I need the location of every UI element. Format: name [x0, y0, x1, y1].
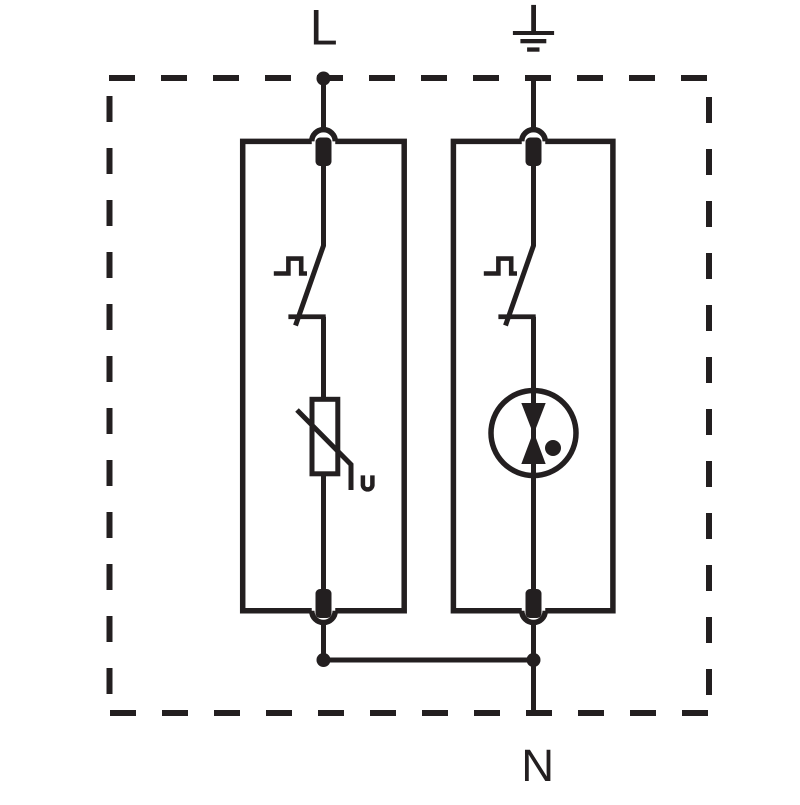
wire: module 1 pin to disconnector — [321, 164, 326, 246]
dashed device enclosure border: bottom edge — [110, 710, 708, 716]
module 2 top plug-in terminal socket arc — [522, 130, 546, 142]
module 1 outline (varistor protection module, left rectangle) — [243, 141, 405, 610]
wire: ground entry down to module 2 top terminal — [531, 79, 536, 129]
wire: varistor to module 1 bottom pin — [321, 474, 326, 592]
ground symbol (earth) — [513, 5, 554, 52]
wire through spark gap — [531, 390, 536, 476]
thermal disconnector switch blade, module 1 — [296, 245, 324, 326]
module 2 bottom plug-in terminal socket arc — [522, 611, 546, 623]
terminal label N — [521, 740, 554, 791]
dashed device enclosure border: left edge — [107, 96, 113, 713]
disconnector fixed contact bar, module 2 — [498, 314, 535, 319]
node: L junction dot on border — [317, 72, 331, 86]
thermal disconnector switch blade, module 2 — [506, 245, 534, 326]
wire: module 2 pin to disconnector — [531, 164, 536, 246]
varistor body rectangle — [312, 399, 338, 474]
wire: spark gap to module 2 bottom pin — [531, 474, 536, 592]
wire: bus down to N exit at border — [531, 660, 536, 712]
module 2 bottom plug-in terminal pin — [526, 589, 542, 618]
terminal label L — [310, 0, 338, 56]
spark gap circle — [491, 391, 576, 476]
node: bus junction dot left — [317, 653, 331, 667]
varistor voltage label u — [363, 475, 373, 489]
module 1 top plug-in terminal socket arc — [312, 130, 336, 142]
wire: bottom bus connecting both modules — [324, 658, 534, 663]
wire: disconnector to spark gap, module 2 — [531, 317, 536, 392]
varistor diagonal stroke with tail — [297, 410, 351, 490]
wire: disconnector to varistor, module 1 — [321, 317, 326, 400]
wire: L node down to module 1 top terminal — [321, 79, 326, 129]
spark gap gas-filled indicator dot — [545, 440, 561, 456]
module 2 outline (spark gap protection module, right rectangle) — [453, 141, 613, 610]
dashed device enclosure border: top edge — [109, 75, 709, 81]
wire: module 1 bottom terminal down to bus — [321, 624, 326, 660]
spark gap lower electrode triangle — [521, 432, 545, 465]
spark gap upper electrode triangle — [521, 403, 545, 435]
wire: module 2 bottom terminal down to bus — [531, 624, 536, 660]
svg-text:L: L — [310, 0, 338, 56]
svg-text:N: N — [521, 740, 554, 791]
dashed device enclosure border: right edge — [706, 97, 712, 713]
node: bus junction dot right — [527, 653, 541, 667]
disconnector fixed contact bar, module 1 — [288, 314, 325, 319]
module 2 top plug-in terminal pin — [526, 138, 542, 167]
module 1 bottom plug-in terminal socket arc — [312, 611, 336, 623]
module 1 top plug-in terminal pin — [316, 138, 332, 167]
surge-actuated trip pulse symbol, module 2 — [484, 259, 517, 274]
surge-actuated trip pulse symbol, module 1 — [274, 259, 307, 274]
module 1 bottom plug-in terminal pin — [316, 589, 332, 618]
